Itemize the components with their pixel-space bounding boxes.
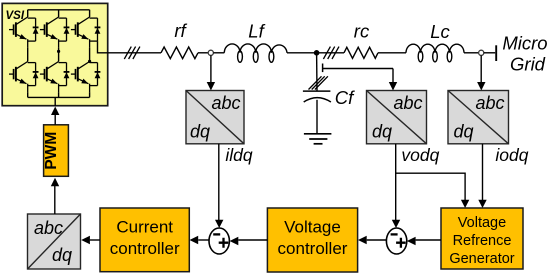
resistor rf [161,47,198,59]
transform block U2 abc/dq (vodq) [367,91,427,144]
inverter block VSI (box) [2,3,108,105]
svg-text:Current: Current [116,218,173,237]
svg-text:abc: abc [211,93,240,113]
svg-text:dq: dq [52,245,72,265]
wire rf to node [198,52,208,54]
wire current controller to transform U4 [90,239,100,241]
wire node to Lf [213,52,224,54]
arrow into transform U4 [81,236,90,244]
arrow into summer 1 right [230,237,239,245]
svg-text:dq: dq [372,122,392,142]
arrow into voltage controller [358,236,367,244]
three-phase slash marks S3 on capacitor branch [309,76,328,89]
three-phase slash marks S2 [323,47,339,59]
wire phase C output tap to box edge [98,41,108,53]
transform block U3 abc/dq (iodq) [448,91,509,144]
resistor rc [344,47,378,58]
controller block Voltage controller [267,208,357,272]
wire reference generator to summer 2 [416,239,441,241]
inductor Lc [406,44,464,62]
svg-text:controller: controller [278,239,348,258]
wire vodq branch to reference generator [396,173,465,200]
transistor Q2 (bottom phase A IGBT with diode) [9,62,39,93]
svg-text:Lc: Lc [430,21,450,42]
svg-text:dq: dq [190,122,210,142]
junction midpoint phase B [57,50,60,53]
wire main bus VSI output [108,52,161,54]
wire iodq down to reference generator [482,144,484,201]
svg-text:abc: abc [475,93,504,113]
arrow into ildq transform [207,82,215,91]
svg-text:abc: abc [393,93,422,113]
transistor Q4 (bottom phase B IGBT with diode) [40,62,70,93]
wire Lc to grid node [464,52,479,54]
svg-text:Generator: Generator [449,251,514,267]
wire transform U4 to PWM [54,186,56,214]
arrow into PWM bottom [51,178,59,187]
svg-text:iodq: iodq [495,145,528,165]
three-phase slash marks S1 [124,47,140,59]
svg-text:abc: abc [34,218,63,238]
wire DC bottom bus inside VSI [28,96,90,98]
svg-text:rc: rc [354,21,370,42]
junction capacitor node (filled dot) [314,50,320,56]
wire summer 2 to voltage controller [367,239,387,241]
wire node to ildq transform [210,55,212,82]
arrow into iodq transform [477,82,485,91]
controller block PWM [43,125,68,177]
wire ildq down to summer 1 [218,144,220,221]
wire capacitor branch vertical [316,53,318,91]
arrow into summer 1 top [215,220,223,228]
arrow into summer 2 top [392,220,400,228]
svg-text:rf: rf [174,20,187,41]
controller block Voltage Refrence Generator [441,208,523,269]
transistor Q3 (top phase B IGBT with diode) [40,17,70,48]
transistor Q6 (bottom phase C IGBT with diode) [71,62,101,93]
wire PWM to VSI [54,115,56,125]
wire vodq tap tick [322,64,324,73]
svg-text:Lf: Lf [248,21,265,42]
transistor Q1 (top phase A IGBT with diode) [9,17,39,48]
wire PWM gate entry into VSI [54,97,56,106]
wire leg risers phase C [89,10,91,98]
svg-text:Micro: Micro [502,33,547,54]
wire vodq tap down to transform [392,69,394,83]
wire grid node to iodq transform [480,55,482,82]
node iodq measurement tap (open circle) [479,50,484,55]
ground [304,134,332,144]
arrow into summer 2 right [407,237,416,245]
svg-text:Cf: Cf [335,87,355,108]
svg-text:PWM: PWM [43,132,60,170]
controller block Current controller [100,208,189,272]
transistor Q5 (top phase C IGBT with diode) [71,17,101,48]
svg-text:controller: controller [110,239,180,258]
svg-text:vodq: vodq [401,145,439,165]
summer 2 (voltage loop) [386,228,406,254]
wire vodq tap horizontal [323,68,393,70]
wire rc to Lc [378,52,406,54]
summer 1 (current loop) [209,228,229,254]
wire leg risers phase B [58,10,60,98]
svg-text:Grid: Grid [510,54,546,75]
arrow vodq into reference generator [461,200,469,208]
arrow into VSI bottom [51,107,59,116]
svg-text:ildq: ildq [225,145,253,165]
wire summer 1 to current controller [198,239,209,241]
wire Lf to capacitor junction [287,52,344,54]
svg-text:Voltage: Voltage [284,218,341,237]
transform block U1 abc/dq (ildq) [186,91,244,144]
transform block U4 abc/dq (modulation) [28,214,81,269]
arrow iodq into reference generator [478,200,486,208]
svg-text:Voltage: Voltage [458,215,506,231]
svg-text:Refrence: Refrence [453,233,512,249]
wire voltage controller to summer 1 [238,239,267,241]
svg-text:dq: dq [453,122,473,142]
inductor Lf [224,44,287,62]
terminal Micro Grid bar [495,45,497,61]
wire vodq down to summer 2 [395,144,397,221]
wire leg risers phase A [27,10,29,98]
arrow into current controller [190,236,199,244]
arrow into vodq transform [389,82,397,91]
wire grid node to terminal [484,52,495,54]
wire DC top bus inside VSI [28,9,90,11]
wire capacitor to ground [316,100,318,134]
capacitor Cf [303,91,331,102]
junction midpoint phase C [88,60,91,63]
node ildq measurement tap (open circle) [208,50,213,55]
